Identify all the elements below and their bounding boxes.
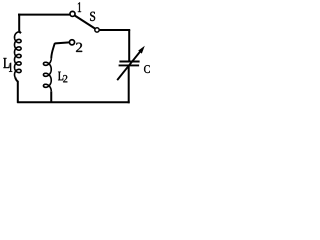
wire top — [18, 14, 70, 16]
capacitor arrow — [117, 51, 140, 80]
wire terminal 2 to corner — [55, 42, 70, 44]
label S — [90, 12, 95, 21]
wire left lower — [15, 77, 18, 102]
switch terminal 1 — [70, 11, 75, 16]
switch lever — [75, 16, 95, 29]
capacitor arrow head — [138, 46, 145, 54]
label L1 — [3, 58, 9, 68]
wire L2 to bottom — [50, 91, 52, 103]
wire corner down to L2 — [51, 44, 54, 58]
wire left upper — [19, 14, 21, 33]
label C — [144, 65, 150, 73]
label 1 — [78, 2, 81, 12]
switch terminal 2 — [69, 40, 74, 45]
wire bottom — [17, 101, 130, 103]
label 2 — [76, 43, 82, 52]
inductor L1 — [15, 32, 22, 78]
label L2 — [58, 72, 63, 81]
switch pole contact — [95, 28, 99, 32]
inductor L2 — [43, 58, 51, 91]
wire switch pole to top right corner — [100, 29, 131, 31]
wire right lower — [128, 66, 130, 103]
capacitor C top plate — [119, 61, 139, 63]
capacitor C bottom plate — [119, 64, 140, 66]
wire right upper — [128, 30, 130, 61]
